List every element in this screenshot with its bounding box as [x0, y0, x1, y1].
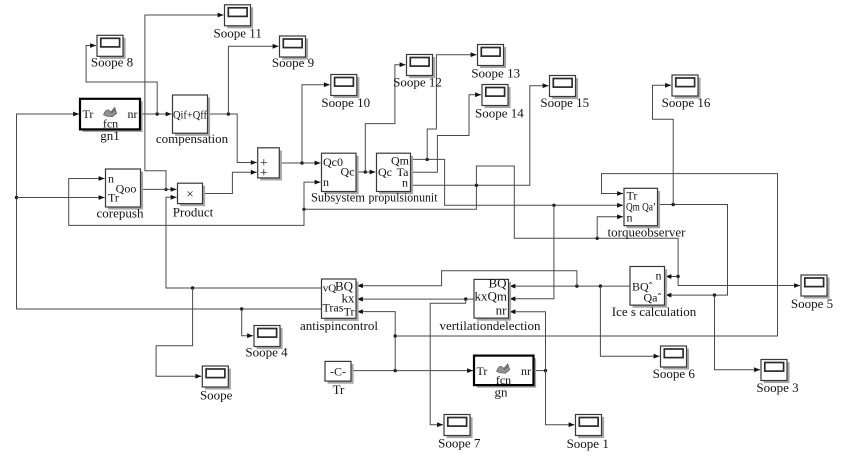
block Product — [173, 183, 214, 219]
svg-text:Subsystem: Subsystem — [311, 190, 365, 205]
svg-text:Soope 10: Soope 10 — [321, 95, 370, 110]
block propulsionunit — [369, 153, 438, 204]
junction Qa out — [672, 203, 675, 206]
svg-text:×: × — [186, 186, 193, 201]
wire Tr big loop to torqueobserver — [395, 174, 777, 336]
svg-text:nr: nr — [521, 364, 531, 378]
junction Qoo out — [164, 188, 167, 191]
wire Subsystem Qc to propulsionunit — [356, 171, 376, 173]
junction corepush Tr tap — [15, 196, 18, 199]
svg-text:Soope 14: Soope 14 — [475, 106, 524, 121]
block vertilationdelection — [439, 276, 541, 334]
svg-text:Soope 6: Soope 6 — [653, 366, 696, 381]
svg-text:propulsionunit: propulsionunit — [369, 190, 438, 205]
wire -C- out to gn Tr — [351, 370, 473, 372]
wire to Soope 13 — [427, 55, 476, 160]
fcn block gn1 — [80, 99, 143, 143]
junction BQ 2 — [575, 284, 578, 287]
scope Soope 4 — [254, 326, 283, 350]
junction Qm out — [426, 158, 429, 161]
block Sum — [258, 148, 282, 181]
svg-text:Tr: Tr — [477, 364, 488, 378]
block corepush — [97, 169, 144, 221]
junction BQ 1 — [599, 284, 602, 287]
wire gn1 out to compensation — [140, 113, 172, 115]
wire BQ detour to antispincontrol — [357, 271, 577, 286]
svg-text:nr: nr — [496, 303, 508, 318]
junction gn1 out — [156, 112, 159, 115]
svg-text:n: n — [402, 176, 408, 190]
svg-text:Tr: Tr — [108, 191, 119, 205]
junction n loop — [596, 237, 599, 240]
wire to Soope 7 — [430, 299, 466, 425]
svg-text:Soope 1: Soope 1 — [567, 436, 609, 451]
svg-text:+: + — [260, 166, 268, 181]
scope Soope — [202, 366, 231, 390]
block torqueobserver — [608, 188, 687, 239]
junction Tr loop — [394, 334, 397, 337]
scope Soope 15 — [550, 76, 579, 100]
wire n out to Soope 15 — [411, 86, 549, 186]
svg-text:Soope 16: Soope 16 — [662, 95, 711, 110]
svg-text:Soope 9: Soope 9 — [272, 55, 314, 70]
svg-text:Soope 12: Soope 12 — [393, 75, 442, 90]
scope Soope 1 — [576, 415, 605, 439]
svg-text:Soope 7: Soope 7 — [438, 436, 481, 451]
svg-text:Soope 8: Soope 8 — [91, 55, 133, 70]
wire Product out to Sum — [203, 172, 257, 193]
svg-text:Soope 13: Soope 13 — [471, 66, 520, 81]
wire to Soope 12 — [365, 65, 405, 172]
svg-text:corepush: corepush — [97, 206, 144, 221]
scope Soope 8 — [97, 35, 126, 59]
scope Soope 11 — [225, 5, 254, 29]
wire to Soope 6 — [600, 286, 659, 356]
junction Soope tap — [191, 286, 194, 289]
wire Qm to vertilationdelection kxQm — [510, 205, 554, 298]
wire Sum out to Subsystem Qc0 — [279, 162, 320, 164]
wire corepush Qoo to Product — [141, 188, 177, 190]
svg-text:Soope 3: Soope 3 — [756, 380, 798, 395]
junction Soope 4 tap — [240, 307, 243, 310]
wire vQ output to Product — [166, 197, 322, 288]
wire Tras feedback to gn1 Tr — [17, 114, 322, 309]
wire Qa out to Ice Qa — [658, 205, 728, 296]
svg-text:Product: Product — [173, 205, 214, 220]
svg-text:Ice s calculation: Ice s calculation — [612, 304, 697, 319]
svg-text:Soope 5: Soope 5 — [791, 296, 833, 311]
svg-text:Soope: Soope — [200, 388, 233, 403]
scope Soope 16 — [672, 75, 701, 99]
svg-text:n: n — [108, 172, 114, 186]
scope Soope 14 — [482, 85, 511, 109]
svg-text:Soope 4: Soope 4 — [245, 345, 288, 360]
scope Soope 6 — [661, 346, 690, 370]
scope Soope 13 — [478, 45, 507, 69]
wire to Soope 16 — [653, 85, 674, 204]
junction n out — [475, 184, 478, 187]
svg-text:n: n — [656, 269, 662, 283]
wire to Soope 9 — [228, 46, 278, 114]
wire gn out — [534, 370, 546, 372]
junction n feedback corner — [302, 208, 305, 211]
svg-text:Qaˆ: Qaˆ — [644, 291, 662, 305]
wire n feedback to corepush n — [69, 179, 304, 226]
svg-text:Tr: Tr — [83, 107, 94, 121]
wire to Soope 11 — [145, 15, 224, 189]
svg-text:nr: nr — [128, 107, 138, 121]
junction Qc out — [364, 170, 367, 173]
svg-text:Qif+Qff: Qif+Qff — [173, 107, 207, 121]
wire Qm out to torqueobserver — [411, 159, 624, 205]
wire n loop upper to Ice n — [476, 166, 678, 277]
svg-text:antispincontrol: antispincontrol — [300, 318, 378, 333]
svg-text:n: n — [323, 175, 329, 189]
junction -C- out — [394, 369, 397, 372]
constant -C- — [325, 361, 354, 397]
svg-text:Soope 15: Soope 15 — [540, 95, 589, 110]
svg-text:Tr: Tr — [333, 382, 345, 397]
svg-text:vertilationdelection: vertilationdelection — [439, 318, 541, 333]
block antispincontrol — [300, 279, 378, 334]
scope Soope 3 — [761, 360, 790, 384]
scope Soope 10 — [331, 75, 360, 99]
scope Soope 12 — [407, 55, 436, 79]
junction gn out — [544, 369, 547, 372]
wire to Soope 4 — [242, 309, 253, 336]
svg-text:kx: kx — [342, 291, 356, 306]
junction kx line — [464, 297, 467, 300]
scope Soope 7 — [444, 415, 473, 439]
fcn block gn — [474, 356, 536, 400]
junction Qm drop — [552, 204, 555, 207]
junction compensation out — [227, 112, 230, 115]
wire n branch left — [304, 185, 476, 209]
svg-text:torqueobserver: torqueobserver — [608, 225, 687, 240]
svg-text:compensation: compensation — [156, 131, 229, 146]
svg-text:-C-: -C- — [330, 365, 346, 379]
wire Ta out to Soope 14 — [411, 95, 482, 173]
svg-text:Tras: Tras — [323, 301, 344, 315]
block compensation — [156, 95, 229, 146]
wire to Soope 10 — [302, 85, 330, 163]
wire BQ out to vertilationdelection — [510, 285, 631, 287]
wire compensation out to Sum — [208, 114, 257, 163]
scope Soope 5 — [801, 275, 830, 299]
wire to torqueobserver n — [597, 217, 623, 239]
wire to corepush Tr — [17, 197, 105, 199]
svg-text:gn1: gn1 — [100, 128, 120, 143]
svg-text:gn: gn — [495, 385, 509, 400]
svg-text:Soope 11: Soope 11 — [214, 26, 262, 41]
svg-text:Qc: Qc — [341, 165, 355, 179]
scope Soope 9 — [280, 36, 309, 60]
wire to Soope — [156, 288, 201, 376]
block Subsystem — [311, 153, 365, 204]
wire to Soope 3 — [715, 295, 761, 370]
wire to Subsystem n — [304, 182, 321, 209]
wire to Soope 5 — [678, 277, 800, 286]
svg-text:Qc: Qc — [378, 165, 392, 179]
svg-text:kxQm: kxQm — [475, 289, 508, 304]
svg-text:Tr: Tr — [344, 305, 355, 319]
wire kx line to antispincontrol — [357, 298, 474, 300]
svg-text:n: n — [627, 211, 633, 225]
wire to Soope 1 — [546, 371, 575, 425]
wire to vertilationdelection nr — [510, 312, 546, 371]
junction Qa drop — [713, 293, 716, 296]
junction Sum out — [300, 161, 303, 164]
wire to Soope 8 — [86, 46, 157, 115]
wire to antispincontrol Tr — [357, 312, 395, 371]
block Ice s calculation — [612, 267, 697, 319]
junction Ice n in — [676, 275, 679, 278]
